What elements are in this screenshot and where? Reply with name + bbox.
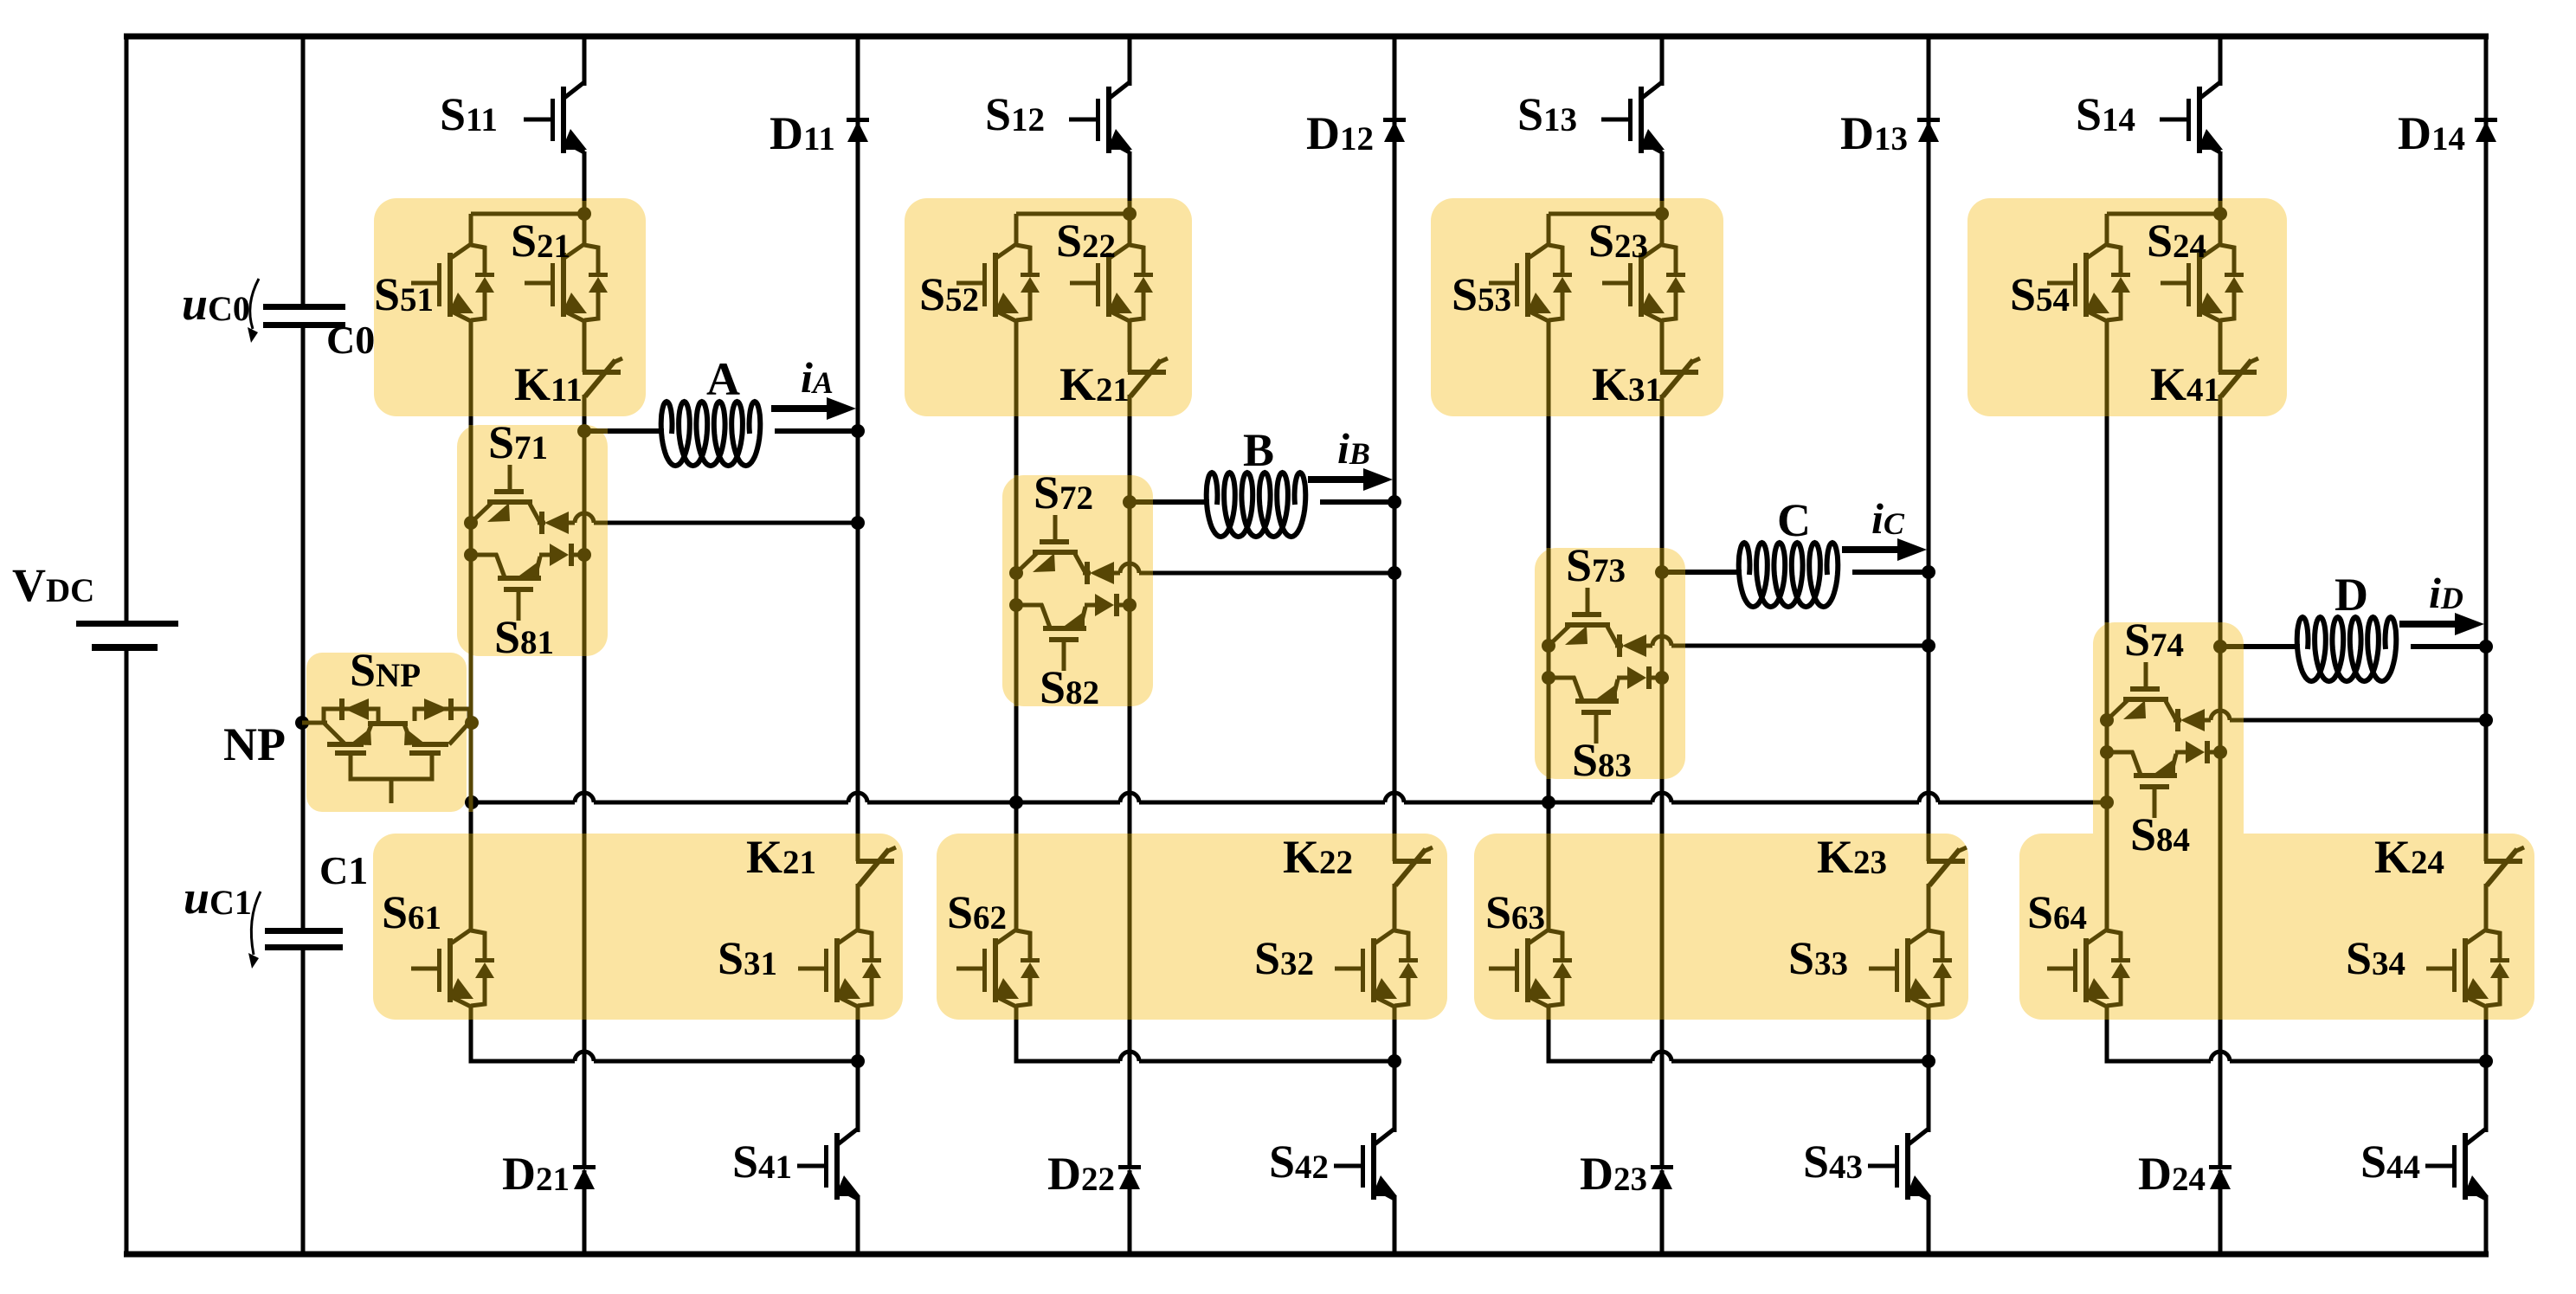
transistor S14 bbox=[2160, 82, 2223, 153]
diode D22 bbox=[1118, 1165, 1141, 1189]
node leg3 bottom row right bbox=[1922, 1054, 1935, 1068]
diode of S72 bbox=[1083, 562, 1114, 584]
transistor S73 bbox=[1549, 588, 1617, 646]
node NP bus leg2 bbox=[1009, 795, 1023, 809]
diode D23 bbox=[1651, 1165, 1673, 1189]
node leg4 S74 right bbox=[2479, 713, 2493, 727]
switch K24 (lower) bbox=[2484, 847, 2524, 885]
wire leg2 S12 collector from bus bbox=[1128, 36, 1132, 86]
wire left battery branch upper bbox=[125, 36, 129, 623]
diode D13 bbox=[1917, 118, 1940, 142]
node leg2 S82 right bbox=[1123, 598, 1137, 612]
wire leg2 left column to NP bus bbox=[1014, 706, 1019, 834]
wire top bus bbox=[124, 34, 2489, 40]
battery VDC bbox=[76, 621, 178, 651]
wire leg2 junction to S52 bbox=[1016, 212, 1130, 216]
wire leg4 D24 to bottom bus bbox=[2219, 1170, 2223, 1254]
wire leg3 D23 to bottom bus bbox=[1660, 1170, 1665, 1254]
svg-text:C0: C0 bbox=[326, 318, 375, 362]
node leg4 phase bbox=[2213, 640, 2227, 653]
node NP bbox=[295, 716, 309, 730]
wire leg3 S13 emitter down bbox=[1660, 151, 1665, 201]
node leg1 S81 right bbox=[577, 548, 591, 562]
transistor S84 bbox=[2107, 751, 2177, 818]
wire leg4 S64 emitter down bbox=[2105, 1007, 2109, 1020]
wire leg3 S43 to bottom bus bbox=[1927, 1196, 1931, 1254]
wire leg4 S24 to K bbox=[2219, 321, 2223, 372]
wire leg3 K to phase node bbox=[1660, 395, 1665, 416]
wire leg2 S42 to bottom bus bbox=[1393, 1196, 1397, 1254]
wire SNP gates bbox=[351, 756, 432, 779]
wire leg1 S31 down bbox=[856, 1007, 860, 1020]
transistor S32 bbox=[1335, 930, 1418, 1007]
diode of S84 bbox=[2175, 741, 2220, 763]
wire leg3 phase line bbox=[1662, 570, 1685, 575]
wire leg1 S11 collector from bus bbox=[583, 36, 587, 86]
node leg4 S84 left bbox=[2100, 745, 2114, 759]
transistor S51 bbox=[411, 244, 494, 321]
switch K41 (upper) bbox=[2219, 358, 2258, 396]
transistor S24 bbox=[2161, 244, 2244, 321]
inductor phase B bbox=[1207, 473, 1306, 537]
switch SNP left IGBT bbox=[324, 723, 371, 756]
wire leg1 S61 emitter down bbox=[469, 1007, 473, 1020]
node leg2 phase right bbox=[1388, 495, 1401, 509]
wire leg4 phase line bbox=[2220, 644, 2244, 649]
node NP bus leg3 bbox=[1542, 795, 1555, 809]
wire leg1 K lower to S31 bbox=[856, 884, 860, 930]
node leg3 phase bbox=[1655, 565, 1669, 579]
transistor S12 bbox=[1069, 82, 1132, 153]
wire leg3 S33 down bbox=[1927, 1007, 1931, 1020]
arrow uC1 bbox=[251, 892, 261, 955]
node leg1 top junction bbox=[577, 207, 591, 221]
node leg1 phase right bbox=[851, 424, 865, 438]
wire leg4 right column upper bbox=[2484, 36, 2489, 834]
node leg2 S72 right bbox=[1388, 566, 1401, 580]
diode SNP left bbox=[324, 699, 378, 721]
transistor S11 bbox=[524, 82, 587, 153]
node leg2 top junction bbox=[1123, 207, 1137, 221]
wire leg2 S32 down bbox=[1393, 1007, 1397, 1020]
switch K31 (upper) bbox=[1660, 358, 1700, 396]
node leg3 S83 right bbox=[1655, 671, 1669, 685]
arrow iA bbox=[771, 397, 856, 420]
node leg1 bottom row right bbox=[851, 1054, 865, 1068]
transistor S31 bbox=[798, 930, 881, 1007]
transistor S34 bbox=[2426, 930, 2509, 1007]
transistor S44 bbox=[2425, 1129, 2489, 1200]
wire leg1 S21 to K bbox=[583, 321, 587, 372]
transistor S63 bbox=[1489, 930, 1572, 1007]
wire leg1 right column in lower box bbox=[856, 834, 860, 861]
wire leg4 middle below S8 box bbox=[2219, 834, 2223, 853]
node leg3 S73 right bbox=[1922, 639, 1935, 653]
transistor S61 bbox=[411, 930, 494, 1007]
node leg1 phase bbox=[577, 424, 591, 438]
wire leg4 S14 collector from bus bbox=[2219, 36, 2223, 86]
transistor S82 bbox=[1016, 604, 1086, 671]
wire leg1 S41 to bottom bus bbox=[856, 1196, 860, 1254]
inductor phase D bbox=[2297, 617, 2397, 681]
switch K23 (lower) bbox=[1927, 847, 1967, 885]
wire leg2 D22 to bottom bus bbox=[1128, 1170, 1132, 1254]
capacitor C1 bbox=[265, 928, 343, 950]
wire leg1 bottom row hop bbox=[575, 1052, 594, 1061]
wire leg1 phase line bbox=[584, 428, 608, 434]
diode of S83 bbox=[1617, 666, 1662, 689]
wire SNP to leg1 bbox=[469, 721, 472, 725]
wire leg3 bottom row to right bbox=[1671, 1059, 1929, 1064]
wire leg2 K lower to S32 bbox=[1393, 884, 1397, 930]
wire leg4 left column to NP bus bbox=[2105, 834, 2109, 853]
wire leg3 middle below S8 box bbox=[1660, 779, 1665, 834]
switch K21 (lower) bbox=[856, 847, 896, 885]
transistor S33 bbox=[1869, 930, 1952, 1007]
highlight box leg1 lower (S61/K2/S31) bbox=[373, 834, 903, 1020]
wire capacitor branch middle bbox=[301, 326, 306, 930]
transistor S53 bbox=[1489, 244, 1572, 321]
transistor S74 bbox=[2107, 662, 2175, 720]
transistor S22 bbox=[1070, 244, 1153, 321]
wire leg2 middle below S8 box bbox=[1128, 706, 1132, 834]
transistor S42 bbox=[1334, 1129, 1397, 1200]
diode of S74 bbox=[2173, 709, 2205, 731]
node leg1 S71 left bbox=[464, 516, 478, 530]
transistor S52 bbox=[956, 244, 1040, 321]
node leg4 phase right bbox=[2479, 640, 2493, 653]
wire leg1 K to phase node bbox=[583, 395, 587, 416]
wire leg3 S53 emitter down bbox=[1547, 321, 1551, 416]
wire leg4 S54 emitter down bbox=[2105, 321, 2109, 416]
transistor S72 bbox=[1016, 515, 1085, 573]
wire leg3 bottom row hop bbox=[1652, 1052, 1671, 1061]
wire leg4 right column in lower box bbox=[2484, 834, 2489, 861]
wire leg4 K lower to S34 bbox=[2484, 884, 2489, 930]
node NP bus leg4 bbox=[2100, 795, 2114, 809]
wire leg3 left column to NP bus bbox=[1547, 779, 1551, 834]
highlight box leg4 S74/S84 bbox=[2093, 622, 2244, 853]
wire NP bus bbox=[472, 793, 2106, 802]
transistor S43 bbox=[1868, 1129, 1931, 1200]
wire leg4 S14 emitter down bbox=[2219, 151, 2223, 201]
switch SNP right IGBT bbox=[404, 723, 469, 756]
wire leg2 K to phase node bbox=[1128, 395, 1132, 416]
wire leg4 S34 down bbox=[2484, 1007, 2489, 1020]
wire leg1 middle below S8 box bbox=[583, 656, 587, 834]
wire leg2 phase line bbox=[1130, 499, 1153, 505]
highlight box leg4 upper (S54/S24/K) bbox=[1967, 198, 2287, 416]
wire leg1 right column upper bbox=[856, 36, 860, 834]
switch K21 (upper) bbox=[1128, 358, 1168, 396]
transistor S71 bbox=[471, 465, 539, 523]
diode D24 bbox=[2209, 1165, 2231, 1189]
node leg2 S72 left bbox=[1009, 566, 1023, 580]
wire leg2 S12 emitter down bbox=[1128, 151, 1132, 201]
node leg4 bottom row right bbox=[2479, 1054, 2493, 1068]
node leg2 phase bbox=[1123, 495, 1137, 509]
highlight box leg3 S73/S83 bbox=[1535, 548, 1685, 779]
node NP bus leg1 bbox=[465, 795, 479, 809]
transistor S83 bbox=[1549, 677, 1619, 744]
diode SNP right bbox=[415, 699, 469, 721]
transistor S41 bbox=[797, 1129, 860, 1200]
switch K22 (lower) bbox=[1393, 847, 1433, 885]
wire leg1 junction to S51 bbox=[471, 212, 584, 216]
wire left battery branch lower bbox=[125, 650, 129, 1254]
arrow uC0 bbox=[250, 279, 259, 329]
arrow iD bbox=[2399, 613, 2484, 635]
node leg1 S71 right bbox=[851, 516, 865, 530]
wire leg2 right column upper bbox=[1393, 36, 1397, 834]
wire leg2 right column in lower box bbox=[1393, 834, 1397, 861]
wire leg1 S51 emitter down bbox=[469, 321, 473, 416]
diode of S71 bbox=[538, 512, 569, 534]
highlight box leg1 upper (S51/S21/K) bbox=[374, 198, 646, 416]
switch K11 (upper) bbox=[583, 358, 622, 396]
wire leg4 S74 output bbox=[2205, 718, 2211, 723]
node leg4 S84 right bbox=[2213, 745, 2227, 759]
diode D21 bbox=[573, 1165, 596, 1189]
inductor phase C bbox=[1739, 543, 1839, 607]
node leg3 S73 left bbox=[1542, 639, 1555, 653]
wire leg4 S44 to bottom bus bbox=[2484, 1196, 2489, 1254]
svg-text:D: D bbox=[2334, 569, 2368, 621]
diode of S73 bbox=[1615, 634, 1646, 657]
diode of S82 bbox=[1085, 594, 1130, 616]
transistor S62 bbox=[956, 930, 1040, 1007]
transistor S81 bbox=[471, 554, 541, 621]
highlight box leg4 lower (S64/K2/S34) bbox=[2019, 834, 2534, 1020]
wire leg1 D21 to bottom bus bbox=[583, 1170, 587, 1254]
diode of S81 bbox=[539, 544, 584, 566]
wire leg4 bottom row hop bbox=[2211, 1052, 2230, 1061]
node leg4 S74 left bbox=[2100, 713, 2114, 727]
diode D14 bbox=[2475, 118, 2497, 142]
transistor S64 bbox=[2047, 930, 2130, 1007]
node leg3 phase right bbox=[1922, 565, 1935, 579]
wire capacitor branch lower bbox=[301, 950, 306, 1254]
highlight box leg2 S72/S82 bbox=[1002, 475, 1153, 706]
wire leg4 junction to S54 bbox=[2107, 212, 2220, 216]
svg-text:A: A bbox=[706, 353, 740, 405]
wire SNP middle segment bbox=[368, 721, 408, 726]
wire leg2 S62 emitter down bbox=[1014, 1007, 1019, 1020]
diode D11 bbox=[847, 118, 869, 142]
wire leg2 S52 emitter down bbox=[1014, 321, 1019, 416]
node SNP right bbox=[465, 716, 479, 730]
wire NP to SNP bbox=[302, 721, 327, 725]
highlight box leg2 upper (S52/S22/K) bbox=[905, 198, 1192, 416]
wire leg3 S73 output bbox=[1646, 644, 1652, 648]
highlight box leg3 lower (S63/K2/S33) bbox=[1474, 834, 1968, 1020]
wire leg2 S22 to K bbox=[1128, 321, 1132, 372]
wire leg3 right column in lower box bbox=[1927, 834, 1931, 861]
svg-text:B: B bbox=[1243, 424, 1274, 476]
wire leg4 K to phase node bbox=[2219, 395, 2223, 416]
svg-text:C: C bbox=[1777, 494, 1811, 546]
diode D12 bbox=[1383, 118, 1406, 142]
wire leg1 S71 output bbox=[569, 521, 575, 525]
inductor phase A bbox=[661, 402, 761, 466]
svg-text:C1: C1 bbox=[319, 848, 368, 892]
wire leg3 S23 to K bbox=[1660, 321, 1665, 372]
transistor S54 bbox=[2047, 244, 2130, 321]
highlight box leg2 lower (S62/K2/S32) bbox=[937, 834, 1447, 1020]
wire leg1 S11 emitter down bbox=[583, 151, 587, 201]
wire capacitor branch upper bbox=[301, 36, 306, 308]
wire leg3 S13 collector from bus bbox=[1660, 36, 1665, 86]
node leg3 S83 left bbox=[1542, 671, 1555, 685]
wire leg3 junction to S53 bbox=[1549, 212, 1662, 216]
wire leg3 S63 emitter down bbox=[1547, 1007, 1551, 1020]
node leg3 top junction bbox=[1655, 207, 1669, 221]
node leg1 S81 left bbox=[464, 548, 478, 562]
highlight box leg1 S71/S81 bbox=[457, 425, 608, 656]
svg-text:NP: NP bbox=[223, 718, 286, 770]
wire leg3 K lower to S33 bbox=[1927, 884, 1931, 930]
wire leg4 bottom row to right bbox=[2230, 1059, 2486, 1064]
wire leg2 bottom row to right bbox=[1139, 1059, 1394, 1064]
wire leg1 bottom row to right bbox=[594, 1059, 858, 1064]
node leg2 S82 left bbox=[1009, 598, 1023, 612]
arrow iB bbox=[1308, 468, 1393, 491]
capacitor C0 bbox=[263, 304, 345, 328]
transistor S21 bbox=[525, 244, 608, 321]
highlight box leg3 upper (S53/S23/K) bbox=[1431, 198, 1723, 416]
highlight box SNP bbox=[306, 653, 467, 812]
transistor S23 bbox=[1602, 244, 1685, 321]
wire leg3 right column upper bbox=[1927, 36, 1931, 834]
node leg2 bottom row right bbox=[1388, 1054, 1401, 1068]
wire bottom bus bbox=[124, 1252, 2489, 1258]
transistor S13 bbox=[1601, 82, 1665, 153]
arrow iC bbox=[1842, 538, 1927, 561]
node leg4 top junction bbox=[2213, 207, 2227, 221]
wire leg2 bottom row hop bbox=[1120, 1052, 1139, 1061]
wire leg2 S72 output bbox=[1114, 571, 1120, 576]
